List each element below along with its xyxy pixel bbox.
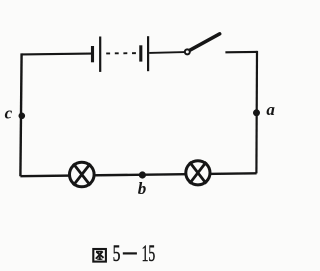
svg-text:b: b	[138, 179, 147, 198]
svg-text:15: 15	[142, 241, 156, 266]
node a	[253, 109, 260, 116]
wire switch to top-right corner	[225, 51, 257, 53]
lamp L1 cross	[73, 164, 90, 186]
lamp L2 cross	[190, 162, 207, 184]
switch S pivot	[185, 49, 190, 54]
battery B1 cell 2 negative plate	[139, 45, 142, 61]
node b	[139, 171, 146, 178]
wire top-left (corner to battery)	[22, 53, 92, 56]
svg-text:c: c	[5, 104, 13, 123]
svg-text:5: 5	[113, 241, 121, 266]
svg-text:a: a	[266, 100, 275, 119]
lamp L1 bulb	[70, 162, 95, 187]
wire left vertical	[20, 53, 21, 176]
battery B1 cell 1 negative plate	[91, 46, 94, 62]
wire dashed (between cells)	[102, 52, 140, 54]
battery B1 cell 2 positive plate	[147, 36, 149, 71]
caption dash	[123, 252, 137, 254]
caption hanzi TU (drawn)	[93, 249, 106, 262]
battery B1 cell 1 positive plate	[99, 37, 101, 72]
lamp L2 bulb	[186, 161, 210, 185]
node c	[19, 113, 26, 120]
wire bottom	[20, 173, 256, 176]
wire battery to switch	[149, 51, 184, 54]
switch S blade	[190, 34, 220, 50]
wire right vertical	[255, 51, 258, 173]
